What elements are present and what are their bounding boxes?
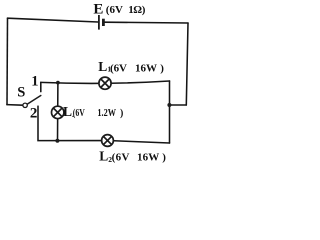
svg-text:): )	[120, 108, 123, 119]
junction node right side	[167, 103, 171, 107]
junction node on L1 wire	[56, 81, 60, 85]
wire contact 1 stub	[40, 82, 42, 91]
wire right outer vertical	[186, 23, 188, 105]
svg-text:16W: 16W	[135, 62, 157, 74]
junction node on bottom wire	[55, 139, 59, 143]
svg-text:E: E	[93, 2, 103, 18]
wire inner right vertical	[169, 81, 171, 143]
svg-text:): )	[162, 151, 166, 163]
wire L1 branch horizontal	[41, 81, 170, 83]
wire top-left from battery to left corner	[8, 18, 99, 22]
label L value	[73, 108, 124, 119]
svg-text:(6V: (6V	[73, 108, 86, 119]
svg-text:1.2W: 1.2W	[97, 108, 116, 119]
label L1 value	[110, 62, 164, 74]
svg-text:(6V: (6V	[110, 62, 127, 74]
wire middle lamp branch vertical	[57, 83, 59, 141]
battery E long plate	[98, 15, 100, 30]
lamp L middle	[52, 106, 64, 118]
svg-text:L2: L2	[99, 148, 112, 164]
svg-text:(6V: (6V	[112, 151, 130, 163]
label L2 value	[112, 151, 167, 163]
svg-text:(6V: (6V	[106, 4, 123, 16]
wire top-right from battery to right corner	[105, 21, 188, 24]
wire stub to switch pivot	[7, 104, 23, 107]
switch S pivot circle	[23, 103, 27, 107]
lamp L1	[99, 77, 111, 89]
battery E short plate	[102, 19, 105, 26]
wire contact 2 down and bottom wire	[38, 106, 170, 143]
wire left vertical	[6, 18, 9, 104]
lamp L2	[102, 135, 114, 147]
svg-text:1Ω): 1Ω)	[128, 4, 146, 16]
svg-text:2: 2	[30, 106, 38, 122]
svg-text:): )	[160, 62, 164, 74]
wire right jog into node	[170, 104, 187, 106]
svg-text:S: S	[17, 84, 25, 100]
svg-text:16W: 16W	[137, 151, 159, 163]
svg-text:1: 1	[31, 73, 38, 89]
label E value (6V 1ohm)	[106, 4, 146, 16]
switch S lever	[27, 96, 41, 105]
